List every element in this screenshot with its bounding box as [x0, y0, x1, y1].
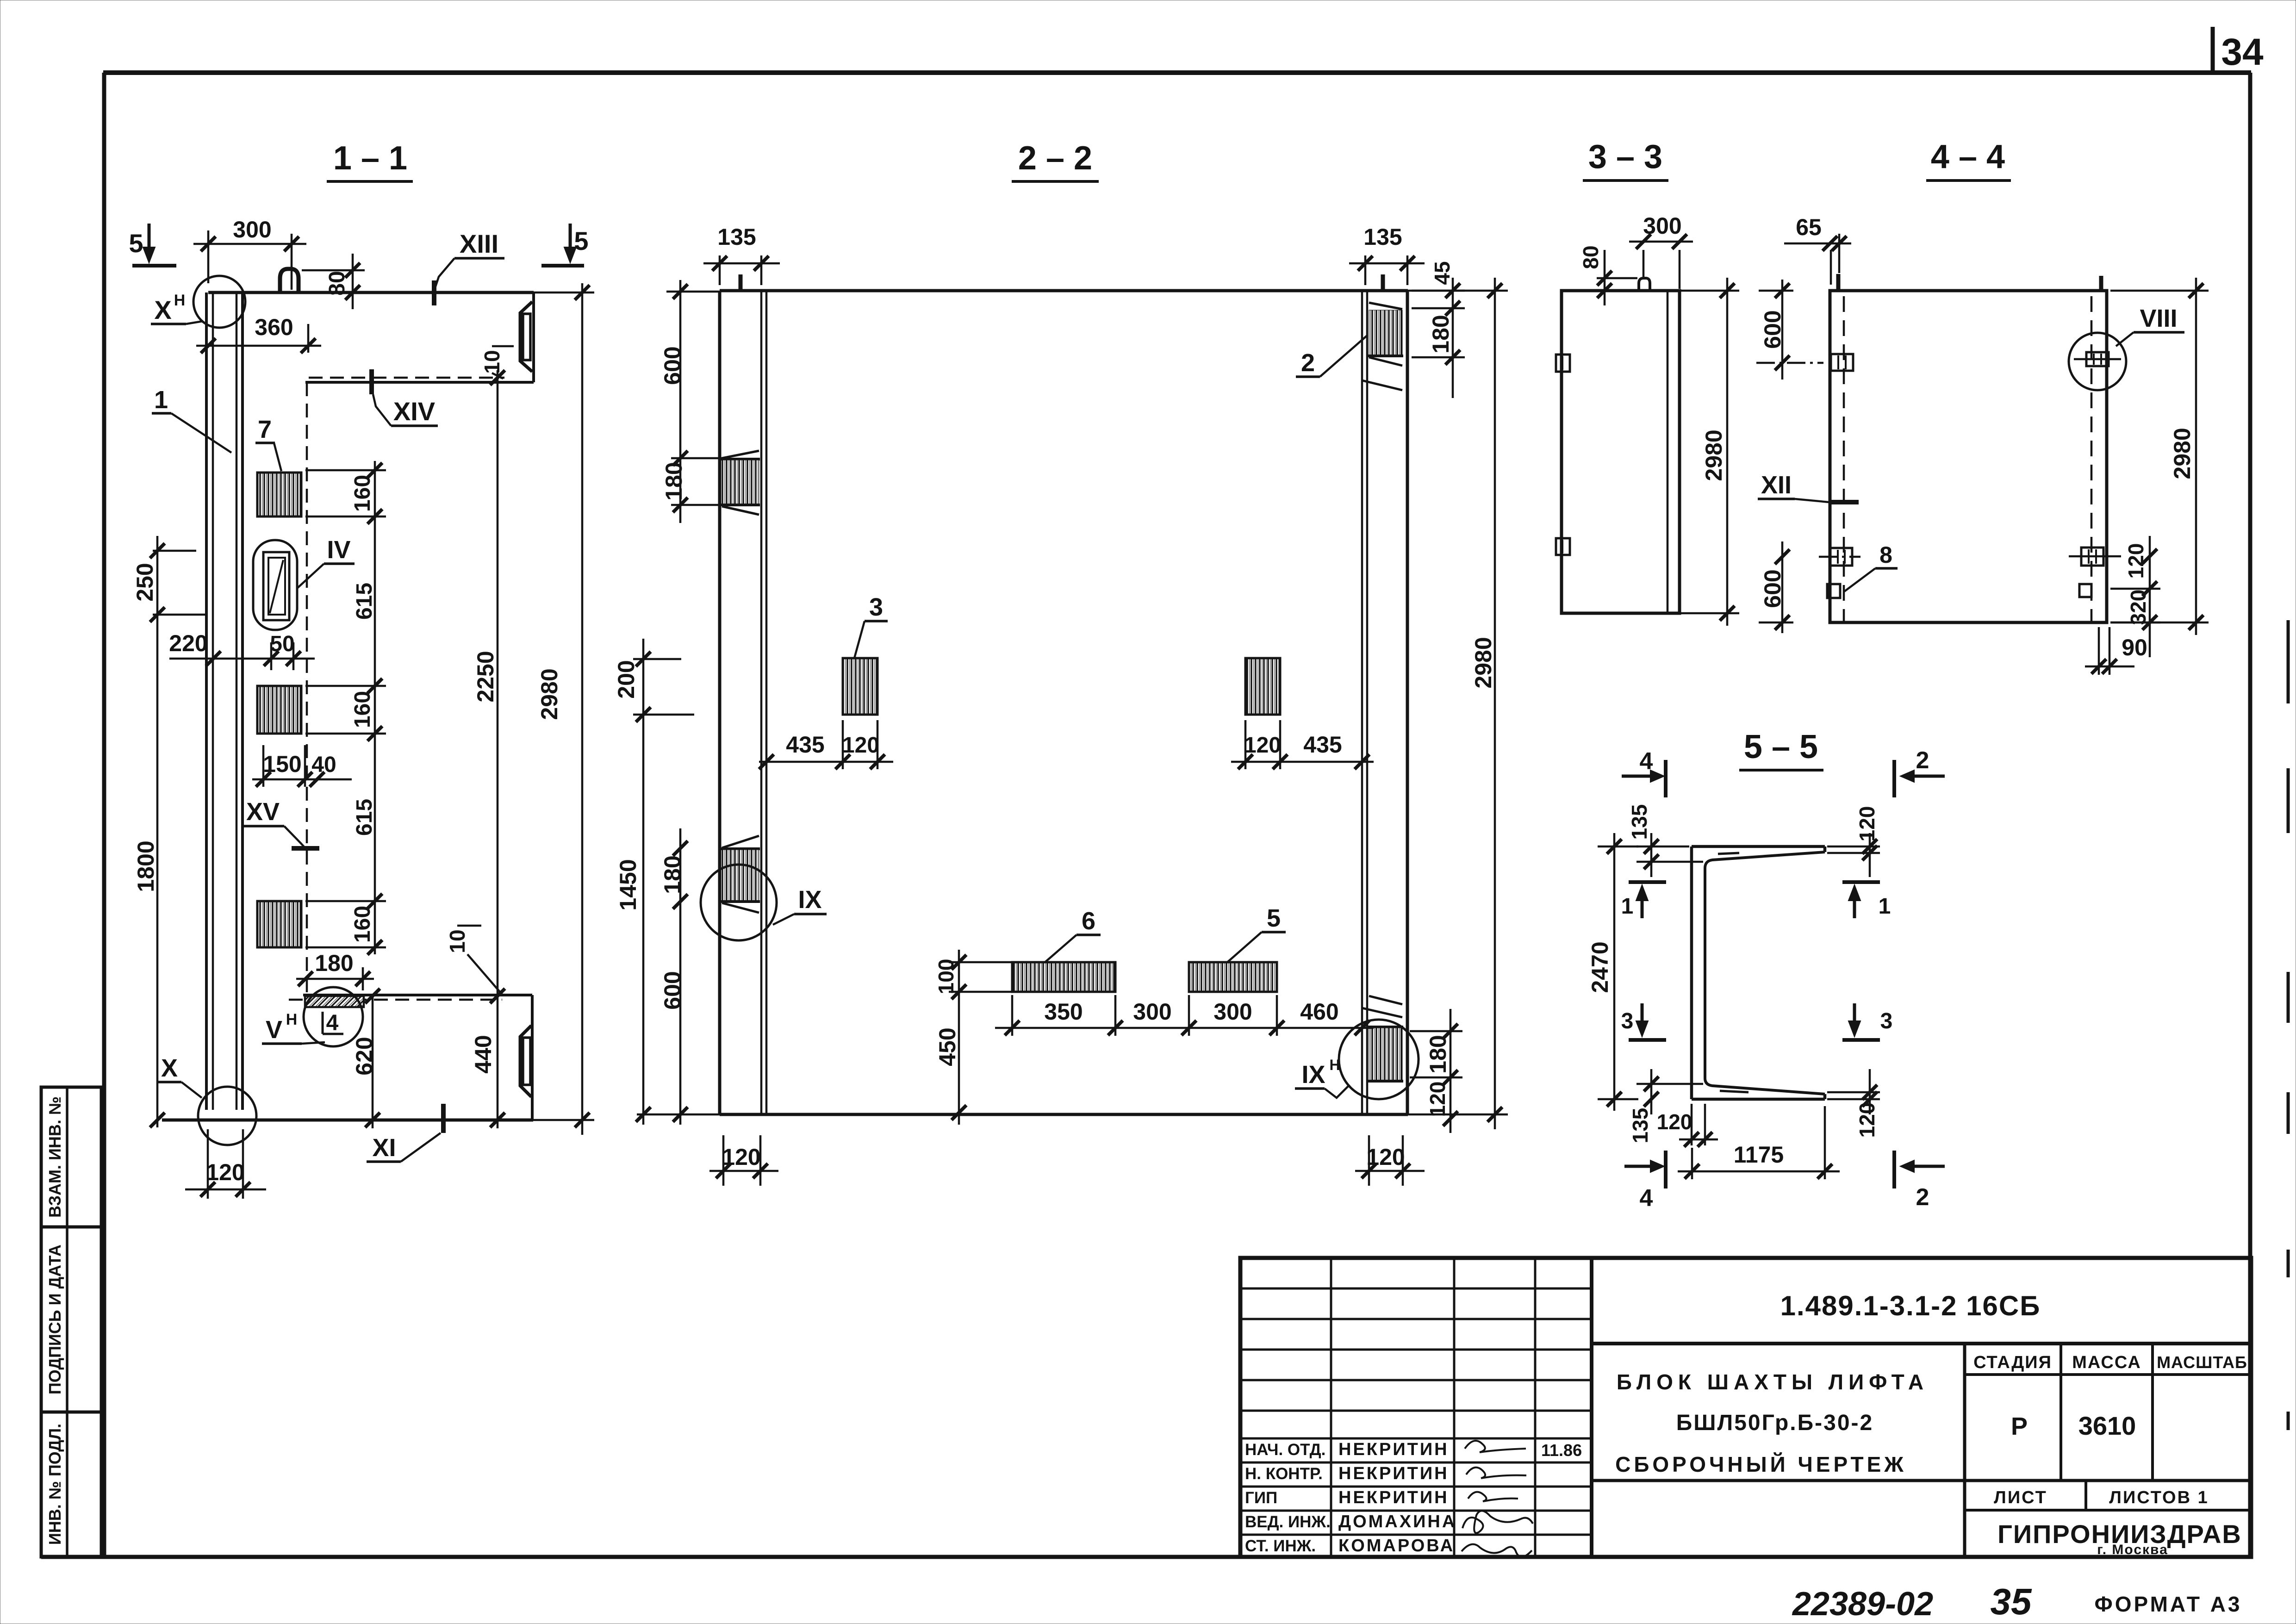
svg-text:СТ. ИНЖ.: СТ. ИНЖ.: [1245, 1537, 1316, 1555]
detail circle IX: [701, 865, 827, 940]
svg-text:НЕКРИТИН: НЕКРИТИН: [1338, 1464, 1449, 1483]
svg-text:300: 300: [1213, 999, 1252, 1025]
svg-text:320: 320: [2126, 590, 2150, 625]
dimension 135 top left 5-5: [1627, 804, 1703, 877]
svg-text:45: 45: [1430, 261, 1454, 285]
cut mark 4 bottom 5-5: [1624, 1151, 1666, 1212]
cut mark 2 bottom 5-5: [1894, 1151, 1945, 1211]
embed plate right hatched: [1245, 658, 1280, 715]
drawing name text: [1615, 1370, 1929, 1476]
svg-text:ВЗАМ. ИНВ. №: ВЗАМ. ИНВ. №: [45, 1096, 64, 1218]
svg-text:100: 100: [934, 959, 958, 995]
svg-text:160: 160: [350, 691, 375, 728]
svg-text:1: 1: [1621, 894, 1634, 919]
cut mark 1 right 5-5: [1842, 882, 1891, 919]
pin 4-4 right: [2099, 276, 2103, 292]
svg-text:3610: 3610: [2078, 1411, 2136, 1440]
svg-text:Н: Н: [1329, 1057, 1340, 1073]
svg-text:XII: XII: [1761, 471, 1792, 499]
label 4 bracket: [323, 1011, 343, 1035]
dimension 80 loop: [302, 254, 370, 309]
svg-text:460: 460: [1300, 999, 1338, 1025]
binder edge dash marks right: [2287, 620, 2290, 1430]
svg-text:450: 450: [934, 1027, 960, 1066]
dimension 180 bottom leg: [296, 950, 374, 990]
dimension 300 top: [193, 217, 306, 290]
dimension 100 450 chain: [934, 950, 1014, 1125]
svg-text:180: 180: [660, 855, 685, 894]
dimension 360: [196, 314, 321, 353]
dimension 180 120 right bottom chain: [1410, 1009, 1462, 1133]
signature squiggles: [1462, 1441, 1533, 1557]
svg-text:2980: 2980: [1470, 637, 1496, 688]
svg-text:150: 150: [263, 751, 301, 777]
svg-text:КОМАРОВА: КОМАРОВА: [1338, 1536, 1455, 1556]
section 2-2 panel outline: [637, 291, 1508, 1114]
svg-text:Н. КОНТР.: Н. КОНТР.: [1245, 1465, 1323, 1483]
anchor left lower small 4-4: [1827, 584, 1840, 598]
svg-text:3: 3: [869, 593, 883, 621]
svg-text:300: 300: [1643, 213, 1681, 239]
cut mark 1 left 5-5: [1621, 882, 1666, 919]
gap note 10 bottom: [445, 926, 503, 995]
svg-text:БШЛ50Гр.Б-30-2: БШЛ50Гр.Б-30-2: [1676, 1411, 1873, 1435]
dimension 150 and 40: [252, 745, 352, 787]
svg-text:МАССА: МАССА: [2072, 1353, 2141, 1372]
svg-text:350: 350: [1044, 999, 1083, 1025]
svg-text:3: 3: [1621, 1009, 1634, 1033]
svg-text:180: 180: [1428, 315, 1454, 353]
svg-text:435: 435: [1303, 732, 1342, 758]
strip anchor V-N hatched: [305, 996, 364, 1007]
svg-text:X: X: [161, 1054, 178, 1082]
svg-text:НЕКРИТИН: НЕКРИТИН: [1338, 1440, 1449, 1459]
svg-text:80: 80: [1579, 245, 1603, 269]
page number 34: [2213, 27, 2264, 75]
anchor left lower 4-4: [1819, 548, 1860, 566]
detail circle VIII anchor: [2069, 333, 2126, 390]
svg-text:2: 2: [1301, 349, 1315, 377]
title block partition lines: [1592, 1344, 2251, 1557]
dimension 250 1800 left chain: [132, 536, 206, 1127]
label XIII with leader: [434, 229, 504, 305]
left bar lower wedge IX hatched: [721, 836, 760, 913]
dimension 120 bottom web 5-5: [1657, 1104, 1718, 1147]
channel slot bottom leg: [520, 1026, 531, 1097]
svg-text:300: 300: [1133, 999, 1171, 1025]
channel slot top leg: [520, 302, 532, 372]
svg-text:35: 35: [1991, 1581, 2032, 1622]
dimension 2980 view 2-2: [1470, 278, 1502, 1129]
svg-text:10: 10: [480, 350, 504, 373]
rotated label PODPIS I DATA: [45, 1244, 64, 1394]
stage mass scale headers: [1973, 1353, 2247, 1440]
svg-text:IX: IX: [798, 886, 821, 914]
svg-text:120: 120: [2124, 543, 2148, 579]
svg-text:135: 135: [1627, 804, 1651, 840]
section 1-1 wall outline: [162, 292, 534, 1120]
svg-text:65: 65: [1796, 214, 1822, 240]
dimension 135 top right: [1349, 224, 1425, 285]
svg-text:1: 1: [154, 386, 168, 414]
svg-text:600: 600: [660, 971, 685, 1009]
cut mark 3 right 5-5: [1842, 1003, 1892, 1040]
svg-text:50: 50: [270, 632, 294, 656]
svg-text:10: 10: [445, 929, 469, 953]
svg-text:Н: Н: [174, 292, 186, 309]
cut mark 5 left: [129, 224, 176, 266]
dimension 2980 3-3: [1681, 278, 1739, 626]
section title 5-5: [1739, 728, 1823, 770]
dimension 2980 4-4: [2110, 278, 2209, 635]
svg-text:3 – 3: 3 – 3: [1588, 138, 1662, 175]
svg-text:120: 120: [842, 733, 879, 758]
label 3 with leader: [854, 593, 888, 658]
svg-text:2470: 2470: [1587, 941, 1613, 993]
dimension 1175: [1678, 1106, 1840, 1179]
svg-text:160: 160: [350, 475, 375, 512]
signature rows text: [1245, 1440, 1582, 1556]
section 4-4 outline: [1830, 291, 2107, 622]
svg-text:180: 180: [315, 950, 353, 976]
label X bottom with leader: [157, 1054, 202, 1098]
svg-text:615: 615: [352, 799, 377, 836]
fixture IV oval: [253, 540, 297, 630]
label 7 with leader: [255, 416, 281, 471]
svg-text:XV: XV: [246, 798, 280, 826]
svg-text:2 – 2: 2 – 2: [1018, 140, 1092, 177]
svg-text:2980: 2980: [2169, 428, 2195, 479]
cut mark 4 top 5-5: [1622, 748, 1666, 797]
dimension chain 180 600 left lower: [660, 828, 688, 1125]
svg-text:1 – 1: 1 – 1: [333, 140, 407, 177]
label X-N with leader: [151, 292, 203, 324]
left stamp column boxes: [41, 1087, 101, 1557]
label V-N with leader: [262, 1011, 325, 1044]
right bar top wedge 2 hatched: [1362, 303, 1403, 390]
label 8 with leader: [1844, 542, 1898, 591]
dimension 120 bottom right bar: [1355, 1135, 1425, 1186]
svg-text:МАСШТАБ: МАСШТАБ: [2157, 1353, 2247, 1372]
svg-text:180: 180: [661, 462, 687, 500]
detail circle V-N: [304, 987, 363, 1046]
dimension 80 3-3: [1577, 245, 1637, 305]
svg-text:3: 3: [1880, 1009, 1893, 1033]
svg-text:2980: 2980: [1701, 429, 1727, 481]
detail circle X-N top: [193, 276, 245, 328]
svg-text:1175: 1175: [1734, 1142, 1784, 1168]
svg-text:135: 135: [1628, 1108, 1652, 1144]
section title 1-1: [327, 140, 413, 181]
svg-text:1800: 1800: [133, 840, 159, 892]
svg-text:120: 120: [1657, 1110, 1692, 1134]
svg-text:160: 160: [350, 906, 375, 943]
svg-text:220: 220: [169, 630, 207, 656]
svg-text:120: 120: [1425, 1082, 1450, 1117]
bottom annotation numbers: [1792, 1581, 2242, 1623]
dimension 220 and 50: [169, 630, 315, 670]
svg-text:XIV: XIV: [393, 397, 435, 426]
svg-text:НАЧ. ОТД.: НАЧ. ОТД.: [1245, 1441, 1325, 1459]
dimension 620: [351, 989, 380, 1128]
svg-text:34: 34: [2221, 31, 2264, 73]
svg-text:V: V: [266, 1016, 282, 1044]
svg-text:90: 90: [2122, 635, 2147, 660]
label 6 with leader: [1045, 907, 1101, 962]
svg-text:2250: 2250: [473, 651, 498, 702]
label XV with leader: [243, 798, 319, 848]
svg-text:5: 5: [574, 226, 588, 255]
section 3-3 outline: [1562, 291, 1680, 613]
title block outer: [1240, 1258, 2251, 1557]
anchor tab 3-3 lower: [1556, 538, 1570, 555]
label IV with leader: [297, 536, 355, 589]
cut mark 3 left 5-5: [1621, 1003, 1666, 1040]
svg-text:IV: IV: [327, 536, 350, 564]
label XIV with leader: [372, 369, 438, 426]
dimension 435 120 left: [759, 720, 893, 769]
svg-text:435: 435: [786, 732, 824, 758]
svg-text:ГИП: ГИП: [1245, 1489, 1277, 1507]
svg-text:4: 4: [326, 1011, 339, 1035]
svg-text:120: 120: [722, 1144, 760, 1170]
svg-text:4: 4: [1640, 1185, 1653, 1212]
svg-text:1.489.1-3.1-2 16СБ: 1.489.1-3.1-2 16СБ: [1780, 1290, 2041, 1321]
section title 4-4: [1926, 138, 2011, 180]
svg-text:СТАДИЯ: СТАДИЯ: [1973, 1353, 2052, 1372]
pin 4-4 left: [1836, 274, 1841, 292]
svg-text:ПОДПИСЬ И ДАТА: ПОДПИСЬ И ДАТА: [45, 1244, 64, 1394]
svg-text:120: 120: [1855, 1102, 1879, 1138]
svg-text:X: X: [154, 295, 171, 324]
gap note 10 top: [480, 346, 514, 379]
svg-text:135: 135: [1363, 224, 1402, 250]
embed plate 7 hatched: [257, 473, 301, 516]
svg-text:120: 120: [206, 1159, 244, 1185]
embed plate hatched lower: [257, 901, 301, 947]
svg-text:ВЕД. ИНЖ.: ВЕД. ИНЖ.: [1245, 1513, 1331, 1531]
embed plate 6 hatched: [1012, 962, 1115, 992]
svg-text:ЛИСТОВ 1: ЛИСТОВ 1: [2109, 1488, 2209, 1507]
anchor left upper 4-4: [1831, 354, 1853, 371]
dimension 65 4-4: [1784, 214, 1851, 285]
svg-text:1450: 1450: [615, 859, 641, 910]
svg-text:2980: 2980: [536, 668, 562, 720]
dimension 120 bottom wall: [185, 1129, 266, 1199]
dimension 135 top left: [703, 224, 780, 285]
svg-text:5: 5: [129, 229, 143, 258]
dimension 120 bottom right 5-5: [1827, 1069, 1880, 1138]
cut mark 5 right: [541, 224, 589, 266]
dimension 350 300 300 460: [995, 995, 1374, 1036]
svg-text:XIII: XIII: [460, 229, 498, 258]
organization name: [1997, 1519, 2242, 1557]
svg-text:2: 2: [1916, 747, 1929, 774]
label XII with leader: [1758, 471, 1859, 502]
svg-text:ДОМАХИНА: ДОМАХИНА: [1338, 1512, 1456, 1531]
dimension 2980 view 1-1: [533, 283, 594, 1135]
svg-text:Н: Н: [286, 1011, 298, 1028]
detail circle X bottom: [198, 1087, 256, 1145]
dimension chain 160 615 column: [305, 461, 386, 955]
anchor right lower 4-4: [2069, 548, 2121, 566]
svg-text:120: 120: [1244, 733, 1281, 758]
svg-text:8: 8: [1879, 542, 1892, 568]
rotated label VZAM INV: [45, 1096, 64, 1218]
svg-text:250: 250: [132, 563, 158, 601]
section title 2-2: [1012, 140, 1099, 181]
svg-text:120: 120: [1366, 1144, 1405, 1170]
dimension 600 4-4 upper left: [1756, 280, 1823, 380]
detail circle IX-N: [1295, 1020, 1419, 1099]
svg-text:135: 135: [717, 224, 756, 250]
svg-text:600: 600: [660, 346, 685, 385]
dimension 120 bottom left bar: [709, 1135, 778, 1186]
label VIII with leader: [2116, 305, 2184, 346]
dimension 600 4-4 lower left: [1759, 541, 1793, 633]
label XI with leader: [367, 1104, 443, 1162]
svg-text:440: 440: [470, 1035, 496, 1073]
dimension 120 320 right chain 4-4: [2110, 536, 2160, 657]
svg-text:7: 7: [258, 416, 272, 443]
svg-text:600: 600: [1760, 569, 1786, 608]
svg-text:ЛИСТ: ЛИСТ: [1994, 1488, 2047, 1507]
svg-text:2: 2: [1916, 1184, 1929, 1211]
cut mark 2 top 5-5: [1894, 747, 1945, 797]
svg-text:ФОРМАТ А3: ФОРМАТ А3: [2094, 1592, 2242, 1616]
dimension chain 200 1450: [613, 639, 694, 1125]
lifting loop on top: [280, 269, 299, 292]
dimension 2250 and 440: [470, 370, 505, 1128]
svg-text:XI: XI: [372, 1134, 396, 1162]
dimension 135 bottom left 5-5: [1628, 1069, 1703, 1143]
svg-text:120: 120: [1855, 806, 1879, 842]
embed plate hatched middle: [257, 686, 301, 734]
svg-text:Р: Р: [2011, 1412, 2028, 1440]
svg-text:600: 600: [1760, 310, 1786, 348]
svg-text:г. Москва: г. Москва: [2097, 1542, 2168, 1557]
svg-text:40: 40: [311, 753, 336, 777]
svg-text:360: 360: [255, 314, 293, 340]
svg-text:6: 6: [1082, 907, 1095, 935]
dimension 120 top right 5-5: [1827, 806, 1880, 877]
dimension 2470: [1587, 833, 1638, 1111]
svg-text:IX: IX: [1301, 1061, 1325, 1089]
rotated label INV N PODL: [45, 1424, 64, 1545]
dimension 90 4-4: [2085, 627, 2147, 675]
svg-text:615: 615: [352, 583, 377, 620]
dimension 45 180 right top chain: [1412, 261, 1465, 398]
document code text: [1780, 1290, 2041, 1321]
svg-text:4 – 4: 4 – 4: [1931, 138, 2005, 175]
label 1 with leader: [152, 386, 231, 453]
pin right bar: [1381, 274, 1385, 292]
svg-text:1: 1: [1879, 894, 1891, 919]
embed plate 5 hatched: [1189, 962, 1277, 992]
svg-text:СБОРОЧНЫЙ ЧЕРТЕЖ: СБОРОЧНЫЙ ЧЕРТЕЖ: [1615, 1452, 1907, 1476]
svg-text:ИНВ. № ПОДЛ.: ИНВ. № ПОДЛ.: [45, 1424, 64, 1545]
pin left bar: [739, 274, 743, 292]
channel profile 5-5: [1692, 846, 1825, 1099]
svg-text:620: 620: [351, 1037, 377, 1075]
dimension 300 3-3: [1629, 213, 1693, 289]
svg-text:11.86: 11.86: [1541, 1441, 1582, 1460]
title block revision table: [1240, 1258, 1592, 1557]
section title 3-3: [1583, 138, 1668, 180]
svg-text:180: 180: [1425, 1035, 1451, 1073]
right bar bottom wedge IX-N hatched: [1362, 996, 1403, 1081]
dimension chain 600 180 left upper: [660, 280, 722, 523]
svg-text:БЛОК ШАХТЫ ЛИФТА: БЛОК ШАХТЫ ЛИФТА: [1617, 1370, 1929, 1394]
anchor tab 3-3 upper: [1556, 355, 1570, 372]
svg-text:22389-02: 22389-02: [1792, 1586, 1933, 1623]
svg-text:200: 200: [613, 660, 639, 698]
svg-text:VIII: VIII: [2140, 305, 2177, 332]
left bar wedge joint hatched: [721, 451, 760, 515]
embed plate 3 hatched: [843, 658, 877, 715]
svg-text:5 – 5: 5 – 5: [1744, 728, 1818, 765]
svg-text:300: 300: [233, 217, 271, 243]
sheet count row: [1994, 1488, 2209, 1507]
loop 3-3: [1639, 278, 1650, 291]
label 2 with leader: [1296, 335, 1368, 377]
dimension 120 435 right: [1231, 720, 1374, 769]
svg-text:НЕКРИТИН: НЕКРИТИН: [1338, 1488, 1449, 1507]
anchor right lower small 4-4: [2079, 584, 2091, 597]
label 5 with leader: [1227, 904, 1286, 962]
svg-text:5: 5: [1267, 904, 1281, 932]
